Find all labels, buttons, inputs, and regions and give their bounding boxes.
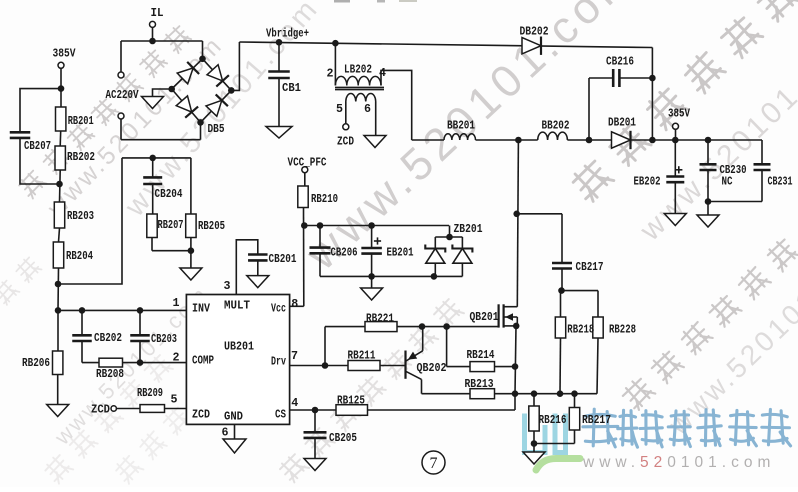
svg-text:RB209: RB209 <box>137 387 163 400</box>
svg-text:RB205: RB205 <box>198 220 225 233</box>
svg-text:NC: NC <box>722 175 733 188</box>
svg-text:RB204: RB204 <box>66 250 93 263</box>
svg-text:RB211: RB211 <box>348 349 376 362</box>
svg-text:385V: 385V <box>668 107 690 120</box>
svg-text:QB202: QB202 <box>417 362 447 375</box>
svg-text:IL: IL <box>151 7 164 20</box>
svg-text:Vbridge+: Vbridge+ <box>266 27 309 40</box>
svg-text:ZB201: ZB201 <box>454 223 483 236</box>
svg-text:ZCD: ZCD <box>91 403 110 416</box>
svg-text:CB203: CB203 <box>151 333 177 346</box>
svg-text:COMP: COMP <box>192 354 214 367</box>
svg-text:RB210: RB210 <box>311 193 338 206</box>
svg-text:DB202: DB202 <box>520 25 549 38</box>
svg-text:BB201: BB201 <box>447 119 475 132</box>
svg-text:MULT: MULT <box>224 299 250 312</box>
svg-text:DB201: DB201 <box>608 116 636 129</box>
svg-text:RB208: RB208 <box>96 368 124 381</box>
svg-text:8: 8 <box>291 298 298 311</box>
svg-text:EB201: EB201 <box>387 247 414 260</box>
svg-text:RB216: RB216 <box>539 414 567 427</box>
svg-text:CS: CS <box>275 408 286 421</box>
svg-text:EB202: EB202 <box>634 175 661 188</box>
svg-text:RB217: RB217 <box>582 414 611 427</box>
svg-text:CB201: CB201 <box>269 253 297 266</box>
svg-text:4: 4 <box>379 67 386 80</box>
svg-text:4: 4 <box>291 397 298 410</box>
svg-text:2: 2 <box>173 351 180 364</box>
svg-text:385V: 385V <box>53 47 76 60</box>
svg-text:INV: INV <box>192 302 210 315</box>
svg-text:Vcc: Vcc <box>271 302 286 315</box>
svg-text:GND: GND <box>224 410 243 423</box>
svg-text:RB221: RB221 <box>366 312 394 325</box>
svg-text:RB125: RB125 <box>337 394 365 407</box>
svg-text:ZCD: ZCD <box>337 135 354 148</box>
svg-text:RB202: RB202 <box>67 151 95 164</box>
svg-text:Drv: Drv <box>271 355 286 368</box>
svg-text:7: 7 <box>291 350 298 363</box>
svg-text:RB203: RB203 <box>67 210 94 223</box>
svg-text:UB201: UB201 <box>224 340 254 353</box>
svg-text:CB217: CB217 <box>576 261 604 274</box>
svg-text:www.520101.com: www.520101.com <box>582 454 775 471</box>
svg-text:RB213: RB213 <box>465 378 494 391</box>
svg-text:QB201: QB201 <box>470 311 499 324</box>
svg-text:6: 6 <box>364 103 371 116</box>
svg-text:RB214: RB214 <box>467 349 495 362</box>
svg-text:AC220V: AC220V <box>106 89 139 102</box>
svg-text:CB216: CB216 <box>606 55 634 68</box>
svg-text:6: 6 <box>222 426 229 439</box>
svg-text:BB202: BB202 <box>542 119 570 132</box>
svg-text:7: 7 <box>430 455 438 472</box>
svg-text:CB206: CB206 <box>331 247 358 260</box>
svg-text:RB207: RB207 <box>158 219 184 232</box>
svg-text:1: 1 <box>173 297 180 310</box>
svg-text:ZCD: ZCD <box>192 408 210 421</box>
svg-text:CB1: CB1 <box>282 82 301 95</box>
svg-text:RB201: RB201 <box>68 115 94 128</box>
svg-text:CB207: CB207 <box>24 140 51 153</box>
svg-text:3: 3 <box>224 280 231 293</box>
svg-text:5: 5 <box>336 103 343 116</box>
svg-text:CB231: CB231 <box>768 175 793 188</box>
svg-text:CB205: CB205 <box>329 432 357 445</box>
svg-text:CB202: CB202 <box>94 332 122 345</box>
svg-text:RB218: RB218 <box>567 323 594 336</box>
svg-text:RB228: RB228 <box>609 323 636 336</box>
svg-text:DB5: DB5 <box>208 123 225 136</box>
svg-text:RB206: RB206 <box>22 357 50 370</box>
svg-text:2: 2 <box>327 67 334 80</box>
svg-text:LB202: LB202 <box>344 63 372 76</box>
svg-text:CB204: CB204 <box>155 188 183 201</box>
svg-text:5: 5 <box>171 393 178 406</box>
